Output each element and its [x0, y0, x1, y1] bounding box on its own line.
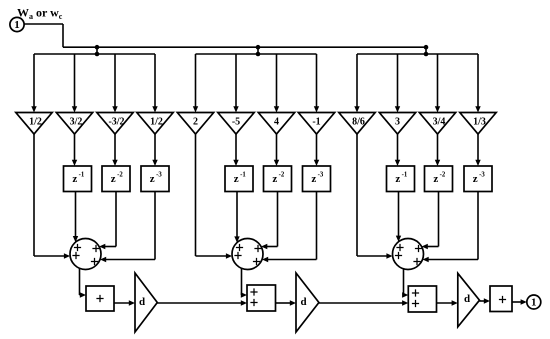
- delay box z^-1 group 3: [387, 166, 415, 192]
- wire header to gain c3: [477, 54, 479, 108]
- delay box z^-3 group 2: [303, 166, 331, 192]
- svg-text:z: z: [395, 173, 400, 185]
- delay box z^-1 group 1: [64, 166, 92, 192]
- svg-text:-3: -3: [156, 172, 162, 179]
- adder box A4: [490, 286, 512, 312]
- svg-text:1/3: 1/3: [473, 117, 486, 128]
- wire gain b0 to sum 2: [196, 134, 233, 259]
- wire delay z^-3 to sum 2: [262, 192, 317, 263]
- scaler triangle D2: [296, 273, 319, 332]
- wire gain c3 to delay: [477, 134, 479, 162]
- wire header to gain b3: [316, 54, 318, 108]
- summing junction S3: [393, 239, 424, 270]
- wire header to gain c2: [437, 54, 439, 108]
- svg-text:z: z: [272, 173, 277, 185]
- junction node group 1: [95, 45, 100, 56]
- svg-text:-2: -2: [440, 172, 446, 179]
- wire delay z^-3 to sum 3: [423, 192, 479, 263]
- svg-text:1: 1: [531, 297, 537, 309]
- gain triangle a3 value 1/2: [137, 113, 173, 135]
- delay box z^-2 group 2: [264, 166, 292, 192]
- wire header to gain a1: [74, 54, 76, 108]
- wire header to gain b1: [235, 54, 237, 108]
- gain triangle b2 value 4: [258, 113, 294, 135]
- svg-text:1/2: 1/2: [150, 117, 163, 128]
- svg-text:1: 1: [14, 19, 20, 31]
- wire adder A1 to scaler D1: [114, 302, 131, 304]
- junction node group 3: [424, 45, 429, 56]
- wire gain c1 to delay: [397, 134, 399, 162]
- svg-text:3/2: 3/2: [70, 117, 83, 128]
- svg-text:1/2: 1/2: [29, 117, 42, 128]
- gain triangle a1 value 3/2: [56, 113, 92, 135]
- wire gain a3 to delay: [154, 134, 156, 162]
- wire header to gain a3: [154, 54, 156, 108]
- svg-text:z: z: [150, 173, 155, 185]
- wire gain c2 to delay: [437, 134, 439, 162]
- gain triangle a0 value 1/2: [16, 113, 52, 135]
- svg-text:z: z: [111, 173, 116, 185]
- svg-text:d: d: [139, 296, 145, 308]
- gain triangle c3 value 1/3: [460, 113, 496, 135]
- svg-text:-2: -2: [279, 172, 285, 179]
- gain triangle a2 value -3/2: [97, 113, 133, 135]
- delay box z^-1 group 2: [225, 166, 253, 192]
- wire scaler D2 to adder A3: [319, 302, 404, 304]
- delay box z^-2 group 3: [425, 166, 453, 192]
- wire scaler D3 to adder A4: [480, 300, 486, 302]
- adder box A2: [247, 285, 276, 311]
- group 1 header wire: [34, 53, 155, 55]
- svg-text:-3/2: -3/2: [108, 117, 124, 128]
- svg-text:-1: -1: [79, 172, 85, 179]
- delay box z^-3 group 3: [464, 166, 492, 192]
- wire gain a1 to delay: [74, 134, 76, 162]
- wire delay z^-1 to sum 1: [75, 192, 77, 238]
- svg-text:-3: -3: [318, 172, 324, 179]
- gain triangle c2 value 3/4: [419, 113, 455, 135]
- group 2 header wire: [196, 53, 317, 55]
- svg-text:-5: -5: [232, 117, 240, 128]
- wire header to gain a0: [33, 54, 35, 108]
- delay box z^-3 group 1: [141, 166, 169, 192]
- wire gain a2 to delay: [114, 134, 116, 162]
- svg-text:-1: -1: [240, 172, 246, 179]
- summing junction S2: [232, 239, 263, 270]
- wire gain c0 to sum 3: [357, 134, 393, 259]
- wire delay z^-3 to sum 1: [100, 192, 155, 263]
- wire adder A2 to scaler D2: [276, 302, 292, 304]
- wire delay z^-2 to sum 3: [422, 192, 439, 250]
- svg-text:z: z: [72, 173, 77, 185]
- wire sum S2 to adder A2: [241, 268, 247, 298]
- bus wire: [63, 46, 426, 48]
- svg-text:-1: -1: [402, 172, 408, 179]
- wire gain b3 to delay: [316, 134, 318, 162]
- summing junction S1: [70, 239, 101, 270]
- wire header to gain a2: [114, 54, 116, 108]
- scaler triangle D3: [458, 273, 480, 327]
- svg-text:Wa or wc: Wa or wc: [17, 6, 63, 22]
- output node 1: [527, 295, 541, 309]
- svg-text:-2: -2: [117, 172, 123, 179]
- svg-text:d: d: [464, 293, 470, 305]
- wire gain a0 to sum 1: [34, 134, 70, 259]
- wire scaler D1 to adder A2: [157, 302, 242, 304]
- wire sum S1 to adder A1: [80, 268, 87, 297]
- svg-text:2: 2: [193, 117, 198, 128]
- svg-text:3/4: 3/4: [433, 117, 446, 128]
- wire header to gain b2: [276, 54, 278, 108]
- delay box z^-2 group 1: [102, 166, 130, 192]
- wire header to gain b0: [195, 54, 197, 108]
- wire gain b1 to delay: [235, 134, 237, 162]
- svg-text:4: 4: [274, 117, 279, 128]
- svg-text:8/6: 8/6: [352, 117, 365, 128]
- svg-text:z: z: [473, 173, 478, 185]
- gain triangle c1 value 3: [379, 113, 415, 135]
- wire delay z^-1 to sum 2: [236, 192, 238, 239]
- group 3 header wire: [357, 53, 478, 55]
- svg-text:3: 3: [395, 117, 400, 128]
- adder box A3: [408, 286, 436, 312]
- wire header to gain c1: [397, 54, 399, 108]
- svg-text:z: z: [311, 173, 316, 185]
- wire delay z^-2 to sum 2: [261, 192, 277, 250]
- wire gain b2 to delay: [276, 134, 278, 162]
- svg-text:z: z: [433, 173, 438, 185]
- svg-text:z: z: [234, 173, 239, 185]
- wire delay z^-2 to sum 1: [99, 192, 116, 250]
- gain triangle c0 value 8/6: [339, 113, 375, 135]
- svg-text:-1: -1: [312, 117, 320, 128]
- gain triangle b1 value -5: [218, 113, 254, 135]
- wire sum S3 to adder A3: [402, 268, 408, 298]
- input node 1: [10, 17, 24, 31]
- junction node group 2: [256, 45, 261, 56]
- wire header to gain c0: [356, 54, 358, 108]
- scaler triangle D1: [135, 273, 157, 332]
- gain triangle b3 value -1: [298, 113, 334, 135]
- wire input to bus: [24, 24, 63, 47]
- svg-text:-3: -3: [479, 172, 485, 179]
- wire adder A3 to scaler D3: [437, 302, 454, 304]
- svg-text:d: d: [300, 296, 306, 308]
- wire adder A4 to output node: [512, 301, 522, 303]
- gain triangle b0 value 2: [177, 113, 213, 135]
- wire delay z^-1 to sum 3: [398, 192, 400, 238]
- adder box A1: [86, 286, 114, 311]
